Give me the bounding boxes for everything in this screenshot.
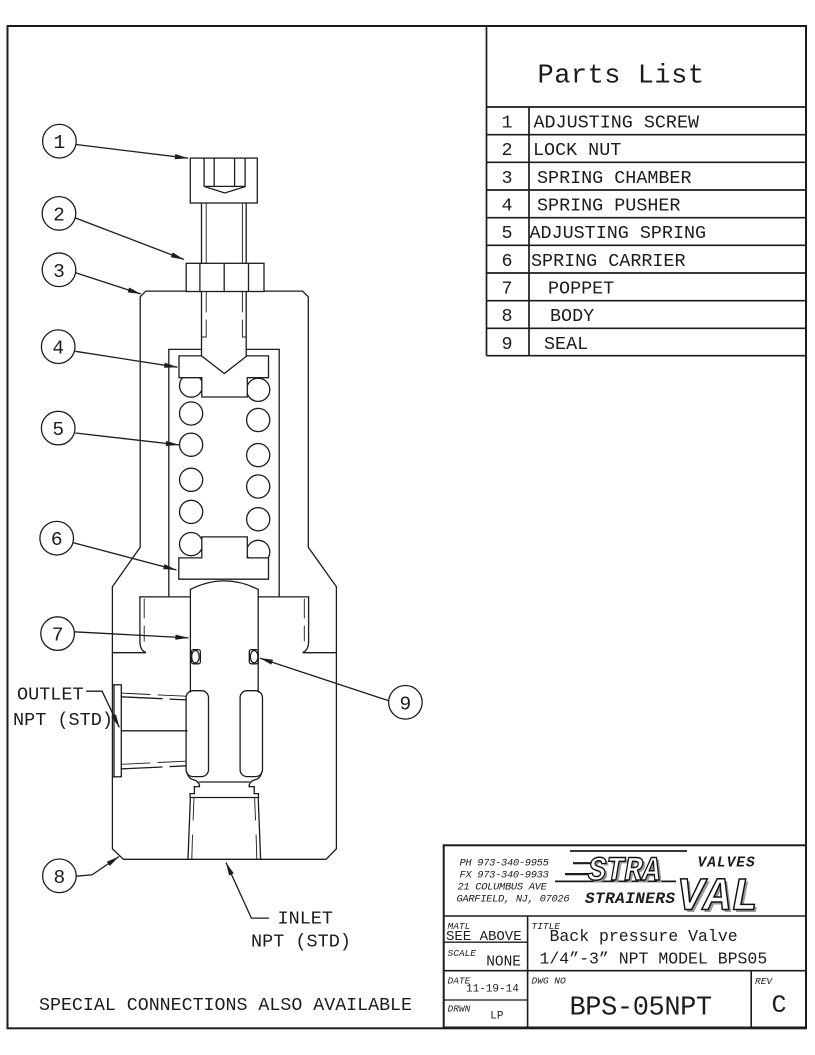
svg-text:8: 8 [54, 867, 66, 889]
outlet npt threads lower [121, 763, 150, 764]
spring pusher [179, 356, 269, 397]
svg-text:6: 6 [51, 529, 63, 551]
spring chamber outline [112, 291, 186, 587]
svg-text:STRAINERS: STRAINERS [585, 890, 675, 908]
inlet npt threads [188, 798, 190, 859]
callout digits [51, 132, 411, 889]
svg-text:NONE: NONE [486, 955, 521, 971]
inlet leader [226, 863, 269, 919]
stem lower into chamber [201, 292, 203, 357]
svg-text:SPRING CHAMBER: SPRING CHAMBER [537, 168, 692, 189]
body thread bore left [140, 597, 146, 652]
svg-text:1: 1 [501, 113, 512, 134]
poppet seat steps [200, 781, 250, 783]
svg-text:11-19-14: 11-19-14 [466, 984, 519, 996]
parts list grid [487, 26, 807, 356]
svg-text:3: 3 [501, 168, 512, 189]
spring carrier [179, 537, 269, 579]
svg-text:OUTLET: OUTLET [17, 684, 84, 705]
svg-text:6: 6 [501, 251, 512, 272]
svg-text:LP: LP [490, 1011, 504, 1023]
svg-text:NPT (STD): NPT (STD) [251, 932, 351, 953]
outlet boss plate [112, 684, 114, 686]
body outline [112, 587, 336, 860]
inlet hex top [190, 797, 258, 799]
spring cavity [169, 348, 202, 350]
callout 2 [42, 197, 76, 231]
svg-text:8: 8 [501, 306, 512, 327]
svg-text:SCALE: SCALE [448, 948, 477, 959]
callout 6 [40, 521, 74, 555]
svg-text:2: 2 [53, 204, 65, 226]
svg-text:3: 3 [53, 261, 65, 283]
svg-text:GARFIELD, NJ, 07026: GARFIELD, NJ, 07026 [457, 894, 570, 906]
svg-text:BODY: BODY [550, 306, 594, 327]
poppet skirt lobe right [240, 691, 262, 777]
poppet walls [189, 589, 191, 692]
svg-text:SPRING PUSHER: SPRING PUSHER [537, 196, 680, 217]
svg-text:5: 5 [52, 419, 64, 441]
title block grid [444, 845, 806, 1027]
svg-text:VALVES: VALVES [698, 856, 756, 872]
callout 8 [43, 859, 77, 893]
svg-text:Back pressure Valve: Back pressure Valve [550, 927, 738, 946]
svg-text:REV: REV [755, 976, 773, 987]
address [457, 858, 570, 906]
poppet dome [190, 581, 258, 590]
callout 9 [389, 686, 423, 720]
svg-text:STRA: STRA [588, 851, 661, 890]
svg-text:SEE ABOVE: SEE ABOVE [446, 929, 522, 945]
callout 5 [41, 411, 75, 445]
svg-text:Parts List: Parts List [538, 62, 705, 92]
callout 7 [41, 617, 75, 651]
svg-text:DWG NO: DWG NO [532, 976, 567, 987]
callout 3 [42, 253, 76, 287]
threaded stem upper [201, 203, 203, 263]
svg-text:ADJUSTING SCREW: ADJUSTING SCREW [534, 113, 701, 134]
svg-text:DRWN: DRWN [448, 1004, 471, 1015]
svg-text:SEAL: SEAL [544, 334, 588, 355]
svg-text:4: 4 [52, 338, 64, 360]
svg-text:5: 5 [501, 223, 512, 244]
seal left [192, 650, 201, 664]
svg-text:7: 7 [52, 625, 64, 647]
callout 4 [41, 330, 75, 364]
svg-text:4: 4 [501, 196, 512, 217]
svg-text:SPECIAL CONNECTIONS ALSO AVAIL: SPECIAL CONNECTIONS ALSO AVAILABLE [39, 996, 412, 1016]
adjusting spring coils right [247, 378, 270, 401]
svg-text:POPPET: POPPET [548, 279, 614, 300]
svg-text:21 COLUMBUS AVE: 21 COLUMBUS AVE [458, 882, 548, 894]
seal right [249, 650, 258, 664]
body thread bore right [303, 597, 309, 652]
parts list text [501, 62, 706, 355]
svg-text:VAL: VAL [677, 871, 758, 924]
svg-text:FX 973-340-9933: FX 973-340-9933 [460, 870, 549, 882]
svg-text:7: 7 [501, 279, 512, 300]
svg-text:ADJUSTING SPRING: ADJUSTING SPRING [530, 223, 707, 244]
poppet waist [187, 772, 200, 787]
svg-text:9: 9 [501, 334, 512, 355]
outlet npt threads [121, 693, 150, 694]
callout 1 [43, 124, 77, 158]
field values [446, 927, 787, 1024]
field labels [448, 921, 774, 1015]
svg-text:1: 1 [54, 132, 66, 154]
svg-text:BPS-05NPT: BPS-05NPT [570, 994, 712, 1024]
svg-text:NPT (STD): NPT (STD) [13, 710, 113, 731]
poppet skirt lobe left [186, 691, 208, 777]
adjusting spring coils left [180, 374, 203, 397]
svg-text:PH 973-340-9955: PH 973-340-9955 [460, 858, 549, 870]
outlet bore centerline [121, 730, 187, 732]
logo straval [555, 851, 761, 926]
svg-text:2: 2 [501, 140, 512, 161]
body top face [140, 596, 191, 598]
adjusting screw head [190, 158, 257, 203]
lock nut [186, 263, 264, 291]
svg-text:C: C [772, 991, 787, 1020]
svg-text:INLET: INLET [278, 909, 334, 930]
svg-text:LOCK NUT: LOCK NUT [533, 140, 621, 161]
outlet leader [86, 691, 119, 727]
svg-text:1/4”-3” NPT MODEL BPS05: 1/4”-3” NPT MODEL BPS05 [540, 950, 768, 969]
svg-text:SPRING CARRIER: SPRING CARRIER [531, 251, 686, 272]
svg-text:9: 9 [400, 693, 412, 715]
